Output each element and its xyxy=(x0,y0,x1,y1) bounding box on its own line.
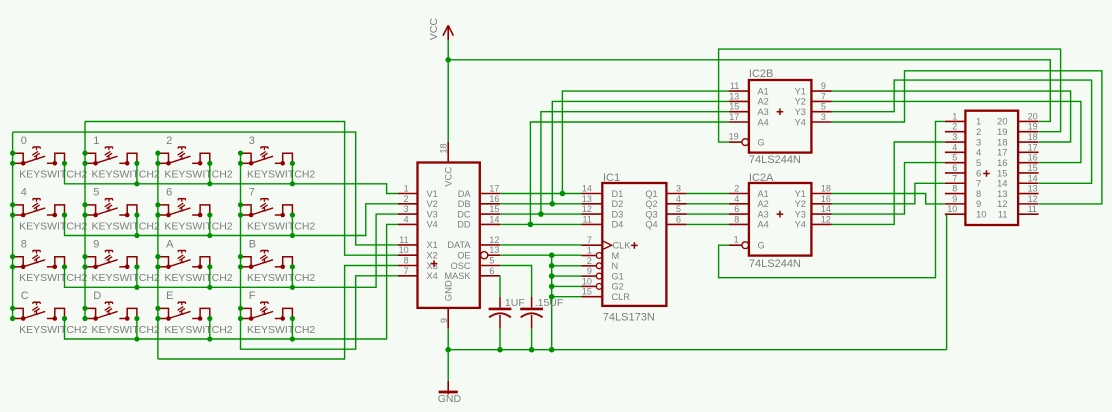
U1 pin 14 (DD) xyxy=(457,214,500,229)
IC1 pin 4 (Q2) xyxy=(645,194,686,209)
svg-text:8: 8 xyxy=(952,184,957,194)
svg-text:4: 4 xyxy=(404,214,409,224)
IC1 pin 3 (Q1) xyxy=(645,184,686,199)
svg-text:5: 5 xyxy=(952,153,957,163)
connector pin 1 xyxy=(945,111,981,127)
keyswitch SA (KEYSWITCH2 key "A") xyxy=(155,238,233,284)
keyswitch S0 (KEYSWITCH2 key "0") xyxy=(10,135,88,181)
wire key row 3 col 1 drop xyxy=(136,319,138,340)
connector pin 11 xyxy=(998,204,1039,220)
keyswitch SD (KEYSWITCH2 key "D") xyxy=(82,290,160,336)
IC1 pin 15 (CLR) xyxy=(582,287,631,302)
svg-text:3: 3 xyxy=(249,135,255,147)
wire net A_Y2: IC2A pin16 to connector pin7 xyxy=(832,183,945,204)
IC1 pin 5 (Q3) xyxy=(645,204,686,219)
svg-text:3: 3 xyxy=(952,132,957,142)
svg-text:2: 2 xyxy=(734,184,739,194)
svg-text:OSC: OSC xyxy=(451,261,471,271)
svg-text:18: 18 xyxy=(821,184,831,194)
svg-text:9: 9 xyxy=(821,81,826,91)
wire net COL3 bottom return to X4 xyxy=(241,276,398,349)
svg-text:G: G xyxy=(758,241,765,251)
IC1 pin 13 (D2) xyxy=(582,194,624,209)
svg-text:5: 5 xyxy=(489,256,494,266)
wire key row 3 col 2 drop xyxy=(209,319,211,340)
svg-text:1UF: 1UF xyxy=(505,297,525,309)
keyswitch SC (KEYSWITCH2 key "C") xyxy=(10,290,88,336)
IC1 pin 10 (G2) xyxy=(582,276,624,291)
wire net /OE to IC1 G2 xyxy=(552,285,582,287)
wire net DD: U1 to IC1 xyxy=(500,223,581,225)
keyswitch S1 (KEYSWITCH2 key "1") xyxy=(82,135,160,181)
svg-text:9: 9 xyxy=(587,266,592,276)
IC1 origin cross xyxy=(631,242,638,249)
svg-text:19: 19 xyxy=(729,131,739,141)
wire net /G2A: IC2A pin1 to connector pin1 xyxy=(719,121,945,277)
svg-text:1: 1 xyxy=(93,135,99,147)
svg-text:0: 0 xyxy=(21,135,27,147)
IC2B pin 15 (A3) xyxy=(729,102,769,117)
U1 pin 17 (DA) xyxy=(458,184,500,199)
IC2B pin 13 (A2) xyxy=(729,91,769,106)
connector pin 2 xyxy=(945,122,981,138)
U1 pin 6 (MASK) xyxy=(444,266,500,281)
svg-text:G: G xyxy=(758,137,765,147)
U1 pin 9 (GND bottom) xyxy=(439,280,455,329)
svg-text:13: 13 xyxy=(729,91,739,101)
svg-text:KEYSWITCH2: KEYSWITCH2 xyxy=(92,220,160,232)
svg-text:12: 12 xyxy=(1028,194,1038,204)
connector origin cross xyxy=(983,170,990,177)
svg-text:12: 12 xyxy=(582,204,592,214)
svg-text:KEYSWITCH2: KEYSWITCH2 xyxy=(164,272,232,284)
connector pin 14 xyxy=(997,173,1039,189)
svg-text:11: 11 xyxy=(998,209,1008,220)
svg-text:Q1: Q1 xyxy=(645,189,657,199)
svg-text:7: 7 xyxy=(249,187,255,199)
svg-text:V4: V4 xyxy=(427,220,438,230)
U1 pin 2 (V2) xyxy=(398,194,438,209)
svg-text:D3: D3 xyxy=(612,209,624,219)
wire net Q4: IC1 to IC2A xyxy=(687,223,729,225)
svg-text:A: A xyxy=(166,238,174,250)
svg-text:4: 4 xyxy=(676,194,681,204)
junction net DB xyxy=(550,201,556,207)
svg-text:15: 15 xyxy=(729,102,739,112)
svg-text:3: 3 xyxy=(821,112,826,122)
svg-text:DC: DC xyxy=(457,209,471,219)
svg-text:VCC: VCC xyxy=(444,167,455,187)
wire C1 to GND rail xyxy=(499,329,501,350)
connector pin 3 xyxy=(945,132,981,148)
connector pin 10 xyxy=(945,204,987,220)
svg-text:2: 2 xyxy=(404,194,409,204)
wire net COL0 top bus to X1 riser xyxy=(13,132,398,245)
IC2B pin 19 (G enable) xyxy=(729,131,765,147)
wire net /OE to IC1 N xyxy=(552,265,582,267)
wire key row 0 col 2 drop xyxy=(209,163,211,184)
wire net DD riser to IC2B xyxy=(530,122,729,224)
svg-text:74LS244N: 74LS244N xyxy=(749,154,801,166)
svg-text:D2: D2 xyxy=(612,199,624,209)
U1 pin 4 (V4) xyxy=(398,214,438,229)
IC1 pin 14 (D1) xyxy=(582,184,624,199)
connector pin 12 xyxy=(997,194,1039,210)
svg-text:4: 4 xyxy=(734,194,739,204)
wire net VCC vertical to U1 pin18 xyxy=(447,40,449,142)
IC2B pin 17 (A4) xyxy=(729,112,769,127)
svg-text:1: 1 xyxy=(404,184,409,194)
connector pin 6 xyxy=(945,163,981,179)
svg-text:DD: DD xyxy=(457,220,471,230)
svg-text:8: 8 xyxy=(21,238,27,250)
wire net COL1 top bus to X2 riser xyxy=(85,122,398,256)
svg-text:Y3: Y3 xyxy=(795,209,806,219)
svg-text:M: M xyxy=(612,251,620,261)
capacitor C2 (.15UF) xyxy=(520,297,563,329)
svg-text:KEYSWITCH2: KEYSWITCH2 xyxy=(164,220,232,232)
junction net ROW0 xyxy=(134,181,295,186)
svg-text:5: 5 xyxy=(821,102,826,112)
svg-text:CLR: CLR xyxy=(612,292,631,302)
svg-text:20: 20 xyxy=(1028,111,1038,121)
svg-text:Q2: Q2 xyxy=(645,199,657,209)
svg-text:11: 11 xyxy=(1028,204,1037,214)
svg-text:2: 2 xyxy=(952,122,957,132)
svg-text:KEYSWITCH2: KEYSWITCH2 xyxy=(247,272,315,284)
svg-text:Y3: Y3 xyxy=(795,107,806,117)
svg-text:V2: V2 xyxy=(427,199,438,209)
U1 pin 8 (X3) xyxy=(398,256,438,271)
svg-text:7: 7 xyxy=(952,173,957,183)
svg-text:1: 1 xyxy=(587,246,592,256)
svg-text:13: 13 xyxy=(1028,184,1038,194)
svg-text:IC2B: IC2B xyxy=(749,68,773,80)
U1 pin 7 (X4) xyxy=(398,266,438,281)
svg-text:Y4: Y4 xyxy=(795,117,806,127)
svg-text:9: 9 xyxy=(93,238,99,250)
svg-text:DATA: DATA xyxy=(447,240,471,250)
wire key row 0 col 3 drop xyxy=(291,163,293,184)
svg-text:1: 1 xyxy=(952,111,957,121)
IC2A pin 8 (A4) xyxy=(729,214,769,229)
keyswitch SF (KEYSWITCH2 key "F") xyxy=(238,290,316,336)
IC1 pin 7 (CLK) xyxy=(582,235,632,250)
U1 pin 5 (OSC) xyxy=(451,256,501,271)
U1 pin 1 (V1) xyxy=(398,184,438,199)
svg-text:D: D xyxy=(93,290,101,302)
wire net A_Y1: IC2A pin18 to connector pin9 xyxy=(832,194,945,204)
wire net COL2 (keys 2,6,A,E left column) xyxy=(157,153,159,359)
keyswitch S6 (KEYSWITCH2 key "6") xyxy=(155,187,233,233)
wire net B_Y4: IC2B pin3 to connector pin12 xyxy=(832,71,1102,204)
wire net GND from U1 pin 9 xyxy=(447,329,449,350)
svg-text:9: 9 xyxy=(952,194,957,204)
wire net /OE ground chain vertical xyxy=(551,255,553,350)
svg-text:B: B xyxy=(249,238,256,250)
IC1 pin 9 (G1) xyxy=(582,266,624,281)
wire net A_Y4: IC2A pin12 to connector pin3 xyxy=(832,142,945,224)
IC2B pin 9 (Y1) xyxy=(795,81,832,96)
svg-text:KEYSWITCH2: KEYSWITCH2 xyxy=(247,220,315,232)
keyswitch S5 (KEYSWITCH2 key "5") xyxy=(82,187,160,233)
svg-text:74LS173N: 74LS173N xyxy=(603,311,655,323)
wire net COL1 (keys 1,5,9,D left column) xyxy=(84,122,86,319)
connector pin 4 xyxy=(945,142,981,158)
IC2A pin 2 (A1) xyxy=(729,184,769,199)
IC U4 IC2A 74LS244N box xyxy=(749,183,812,256)
wire net DC: U1 to IC1 xyxy=(500,213,581,215)
svg-text:KEYSWITCH2: KEYSWITCH2 xyxy=(19,169,87,181)
svg-text:15: 15 xyxy=(582,287,592,297)
svg-text:Y4: Y4 xyxy=(795,220,806,230)
svg-text:6: 6 xyxy=(734,204,739,214)
IC1 pin 1 (M) xyxy=(582,246,620,261)
svg-text:D1: D1 xyxy=(612,189,624,199)
U1 pin 3 (V3) xyxy=(398,204,438,219)
svg-text:3: 3 xyxy=(676,184,681,194)
wire net DB: U1 to IC1 xyxy=(500,203,581,205)
svg-text:5: 5 xyxy=(93,187,99,199)
IC2A pin 16 (Y2) xyxy=(795,194,832,209)
wire net COL2 bottom return to X3 xyxy=(158,266,398,360)
wire net /OE to IC1 G1 xyxy=(552,275,582,277)
wire net ROW1 link xyxy=(65,204,398,236)
wire key row 1 col 1 drop xyxy=(136,215,138,236)
wire net ROW2 link xyxy=(65,214,398,287)
wire net COL0 (keys 0,4,8,C left column) xyxy=(12,132,14,318)
svg-text:14: 14 xyxy=(489,214,499,224)
U1 pin 12 (DATA) xyxy=(447,235,500,250)
IC2B pin 7 (Y2) xyxy=(795,91,832,106)
capacitor C1 (1UF) xyxy=(489,297,525,329)
keyswitch S3 (KEYSWITCH2 key "3") xyxy=(238,135,316,181)
svg-text:X4: X4 xyxy=(427,271,438,281)
svg-text:6: 6 xyxy=(166,187,172,199)
svg-text:IC2A: IC2A xyxy=(749,172,774,184)
svg-text:13: 13 xyxy=(582,194,592,204)
svg-text:16: 16 xyxy=(489,194,499,204)
svg-text:14: 14 xyxy=(582,184,592,194)
connector pin 15 xyxy=(997,163,1039,179)
svg-text:X1: X1 xyxy=(427,240,438,250)
junction net ROW1 xyxy=(134,233,295,238)
U1 pin 16 (DB) xyxy=(458,194,500,209)
svg-text:6: 6 xyxy=(952,163,957,173)
svg-text:KEYSWITCH2: KEYSWITCH2 xyxy=(19,272,87,284)
svg-text:14: 14 xyxy=(1028,173,1038,183)
svg-text:A4: A4 xyxy=(758,117,769,127)
svg-text:13: 13 xyxy=(489,245,499,255)
U1 pin 15 (DC) xyxy=(457,204,500,219)
IC2A pin 18 (Y1) xyxy=(795,184,832,199)
svg-text:X3: X3 xyxy=(427,261,438,271)
IC2A pin 6 (A3) xyxy=(729,204,769,219)
svg-text:KEYSWITCH2: KEYSWITCH2 xyxy=(19,324,87,336)
svg-text:12: 12 xyxy=(821,214,831,224)
U1 origin cross xyxy=(431,260,438,267)
connector pin 8 xyxy=(945,184,981,200)
connector pin 5 xyxy=(945,153,981,169)
svg-text:IC1: IC1 xyxy=(603,172,620,184)
IC2B origin cross xyxy=(777,108,784,115)
connector pin 20 xyxy=(997,111,1039,127)
svg-text:KEYSWITCH2: KEYSWITCH2 xyxy=(247,169,315,181)
svg-text:7: 7 xyxy=(404,266,409,276)
keyswitch S2 (KEYSWITCH2 key "2") xyxy=(155,135,233,181)
svg-text:C: C xyxy=(21,290,29,302)
wire key row 1 col 2 drop xyxy=(209,215,211,236)
IC U2 IC1 74LS173N box xyxy=(602,183,666,306)
svg-text:7: 7 xyxy=(821,91,826,101)
svg-text:KEYSWITCH2: KEYSWITCH2 xyxy=(164,324,232,336)
IC2A pin 12 (Y4) xyxy=(795,214,832,229)
IC2A pin 14 (Y3) xyxy=(795,204,832,219)
svg-text:DA: DA xyxy=(458,189,472,199)
wire net Q3: IC1 to IC2A xyxy=(687,213,729,215)
svg-text:3: 3 xyxy=(404,204,409,214)
svg-text:A1: A1 xyxy=(758,189,769,199)
svg-text:KEYSWITCH2: KEYSWITCH2 xyxy=(92,324,160,336)
svg-text:17: 17 xyxy=(489,184,499,194)
svg-text:4: 4 xyxy=(21,187,27,199)
wire key row 3 col 3 drop xyxy=(291,319,293,340)
svg-text:18: 18 xyxy=(439,143,449,153)
connector SV1 20-pin box xyxy=(965,111,1018,225)
keyswitch S4 (KEYSWITCH2 key "4") xyxy=(10,187,88,233)
wire net B_Y1: IC2B pin9 to connector pin18 xyxy=(832,91,1071,142)
IC1 pin 6 (Q4) xyxy=(645,214,686,229)
svg-text:CLK: CLK xyxy=(613,241,632,251)
svg-text:A2: A2 xyxy=(758,97,769,107)
svg-text:.15UF: .15UF xyxy=(535,297,564,309)
VCC power symbol xyxy=(428,18,453,41)
svg-text:A3: A3 xyxy=(758,107,769,117)
svg-text:18: 18 xyxy=(1028,132,1038,142)
svg-text:OE: OE xyxy=(457,251,470,261)
svg-text:12: 12 xyxy=(489,235,499,245)
svg-text:10: 10 xyxy=(582,276,592,286)
wire key row 0 col 1 drop xyxy=(136,163,138,184)
IC1 pin 11 (D4) xyxy=(582,214,624,229)
svg-text:A1: A1 xyxy=(758,86,769,96)
wire net Q2: IC1 to IC2A xyxy=(687,203,729,205)
svg-text:16: 16 xyxy=(1028,153,1038,163)
wire net /OE: U1 pin13 to IC1 M xyxy=(500,254,581,256)
svg-text:17: 17 xyxy=(1028,142,1038,152)
svg-text:G2: G2 xyxy=(612,282,624,292)
U1 pin 11 (X1) xyxy=(398,235,438,250)
svg-text:GND: GND xyxy=(438,393,462,405)
junction net DC xyxy=(538,211,544,217)
wire net MASK: U1 pin6 to C1 xyxy=(499,276,501,297)
svg-text:VCC: VCC xyxy=(428,18,440,41)
wire net DA riser to IC2B xyxy=(562,91,729,193)
connector pin 18 xyxy=(997,132,1039,148)
connector pin 16 xyxy=(997,153,1039,169)
svg-text:Y1: Y1 xyxy=(795,189,806,199)
svg-text:A3: A3 xyxy=(758,209,769,219)
IC2A pin 4 (A2) xyxy=(729,194,769,209)
svg-text:11: 11 xyxy=(583,214,592,224)
ground symbol GND xyxy=(438,381,462,405)
wire net DB riser to IC2B xyxy=(552,101,729,203)
svg-text:6: 6 xyxy=(676,214,681,224)
IC1 pin 2 (N) xyxy=(582,256,619,271)
wire key row 2 col 3 drop xyxy=(291,267,293,288)
keyswitch S7 (KEYSWITCH2 key "7") xyxy=(238,187,316,233)
wire net VCC to connector pin 20 xyxy=(448,60,1050,122)
wire net DATA: U1 pin12 to IC1 CLK xyxy=(500,244,581,246)
junction net DA xyxy=(560,191,566,197)
svg-text:Y2: Y2 xyxy=(795,199,806,209)
svg-text:4: 4 xyxy=(952,142,957,152)
svg-text:19: 19 xyxy=(1028,122,1038,132)
svg-text:KEYSWITCH2: KEYSWITCH2 xyxy=(247,324,315,336)
keyswitch SB (KEYSWITCH2 key "B") xyxy=(238,238,316,284)
IC2A pin 1 (G enable) xyxy=(729,234,765,250)
wire key row 2 col 1 drop xyxy=(136,267,138,288)
junction net /OE chain xyxy=(549,252,555,299)
svg-text:A2: A2 xyxy=(758,199,769,209)
connector pin 19 xyxy=(997,122,1039,138)
connector pin 9 xyxy=(945,194,981,210)
svg-text:F: F xyxy=(249,290,256,302)
svg-text:V3: V3 xyxy=(427,209,438,219)
wire net GND to connector pin 10 xyxy=(945,215,947,350)
junction net DD xyxy=(528,222,534,228)
op-amp U1 keyboard encoder IC box xyxy=(418,163,480,308)
wire key row 1 col 3 drop xyxy=(291,215,293,236)
svg-text:17: 17 xyxy=(729,112,739,122)
wire net COL3 (keys 3,7,B,F left column) xyxy=(240,153,242,319)
svg-text:11: 11 xyxy=(399,235,408,245)
IC1 pin 12 (D3) xyxy=(582,204,624,219)
svg-text:A4: A4 xyxy=(758,220,769,230)
svg-text:2: 2 xyxy=(166,135,172,147)
svg-text:KEYSWITCH2: KEYSWITCH2 xyxy=(164,169,232,181)
svg-text:8: 8 xyxy=(734,214,739,224)
svg-text:N: N xyxy=(612,261,619,271)
svg-text:Y2: Y2 xyxy=(795,97,806,107)
junction net GND at ground symbol xyxy=(445,347,451,353)
wire key row 2 col 2 drop xyxy=(209,267,211,288)
IC2B pin 11 (A1) xyxy=(729,81,769,96)
connector pin 17 xyxy=(997,142,1039,158)
svg-text:GND: GND xyxy=(444,280,455,301)
keyswitch S8 (KEYSWITCH2 key "8") xyxy=(10,238,88,284)
junction net VCC xyxy=(445,57,451,63)
wire net DA: U1 to IC1 xyxy=(500,193,581,195)
svg-text:KEYSWITCH2: KEYSWITCH2 xyxy=(19,220,87,232)
wire net OSC: U1 pin5 to C2 xyxy=(500,266,531,297)
svg-text:Q3: Q3 xyxy=(645,209,657,219)
IC2B pin 5 (Y3) xyxy=(795,102,832,117)
U1 pin 10 (X2) xyxy=(398,245,438,260)
IC2A origin cross xyxy=(777,211,784,218)
svg-text:9: 9 xyxy=(439,318,449,323)
svg-text:11: 11 xyxy=(730,81,739,91)
svg-text:10: 10 xyxy=(947,204,957,214)
junction net GND rail dots xyxy=(497,347,554,353)
wire net DC riser to IC2B xyxy=(541,112,729,214)
svg-text:2: 2 xyxy=(587,256,592,266)
svg-text:MASK: MASK xyxy=(444,271,471,281)
junction net ROW3 xyxy=(134,336,295,341)
U1 pin 18 (VCC top) xyxy=(439,142,455,187)
svg-text:1: 1 xyxy=(734,234,739,244)
wire net ROW3 link xyxy=(65,224,398,339)
